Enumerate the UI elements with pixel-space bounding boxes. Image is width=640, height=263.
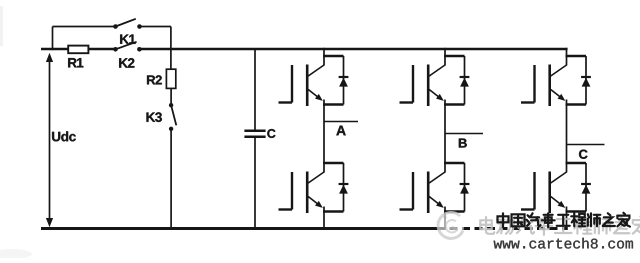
wire: bypass branch (left riser + to K1) [53, 27, 116, 51]
capacitor C [244, 131, 265, 137]
switch K3 [169, 103, 176, 131]
diode D6 (anti-parallel) [566, 163, 591, 212]
diode D1 (anti-parallel) [323, 56, 348, 105]
node A (phase output) [324, 121, 358, 123]
switch K1 [113, 19, 142, 29]
watermark: faint gray text [480, 217, 640, 235]
diode D4 (anti-parallel) [444, 163, 469, 212]
wire: DC+ top rail [41, 48, 568, 51]
label R2 [147, 75, 162, 84]
scan smudge bottom-left [0, 249, 32, 259]
label K1 [120, 35, 135, 44]
diode D5 (anti-parallel) [566, 56, 591, 105]
wire: bypass branch (K1 to riser at precharge node) [140, 27, 171, 70]
wire: leg A upper collector stub [323, 48, 325, 66]
label A [336, 126, 345, 136]
label Udc [52, 131, 76, 141]
transistor Q4 (IGBT) [400, 172, 446, 214]
watermark: site name text [498, 213, 630, 228]
wire: leg A midpoint [323, 100, 325, 173]
transistor Q5 (IGBT) [521, 65, 567, 107]
watermark: faint logo circle [437, 212, 464, 240]
label K3 [147, 112, 162, 122]
scan smudge left edge [0, 6, 3, 46]
label B [459, 139, 467, 148]
wire: leg B midpoint [444, 100, 446, 173]
watermark: site url [494, 238, 633, 249]
wire: leg C lower emitter to rail [566, 207, 568, 230]
voltage arrow Udc [46, 53, 53, 227]
transistor Q1 (IGBT) [279, 65, 325, 107]
switch K2 [113, 42, 142, 52]
resistor R2 [166, 69, 175, 88]
wire: K3 to bottom rail [170, 129, 172, 230]
wire: leg B lower emitter to rail [444, 207, 446, 230]
label R1 [68, 58, 83, 67]
transistor Q2 (IGBT) [279, 172, 325, 214]
node C (phase output) [567, 144, 605, 146]
wire: capacitor top lead [254, 49, 256, 131]
label C (capacitor) [267, 129, 275, 138]
wire: leg A lower emitter to rail [323, 207, 325, 230]
wire: leg C midpoint [566, 100, 568, 173]
resistor R1 [68, 46, 88, 54]
wire: leg B upper collector stub [444, 48, 446, 66]
label C [579, 150, 588, 159]
label K2 [119, 58, 134, 67]
transistor Q6 (IGBT) [521, 172, 567, 214]
node B (phase output) [445, 133, 483, 135]
wire: leg C upper collector stub [566, 48, 568, 66]
diode D2 (anti-parallel) [323, 163, 348, 212]
wire: capacitor bottom lead [254, 137, 256, 230]
diode D3 (anti-parallel) [444, 56, 469, 105]
transistor Q3 (IGBT) [400, 65, 446, 107]
wire: R2 to K3 [170, 88, 172, 104]
wire: DC- bottom rail [41, 227, 568, 230]
